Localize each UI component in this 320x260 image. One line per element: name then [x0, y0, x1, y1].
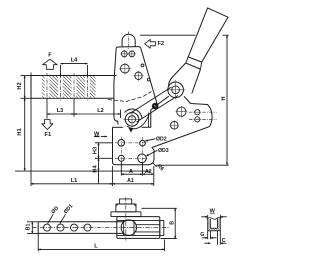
- base outline: [113, 96, 213, 165]
- bar hatch segments: [42, 76, 44, 98]
- bar centerline: [32, 227, 170, 229]
- F arrow: [43, 59, 58, 69]
- bracket left edge: [114, 49, 118, 124]
- mounting plate holes: [118, 140, 125, 147]
- F1 arrow: [42, 120, 53, 130]
- H2 dimension: [21, 75, 32, 77]
- svg-text:H2: H2: [17, 82, 23, 89]
- B: [142, 207, 177, 209]
- grip band lines: [186, 57, 202, 69]
- H1 dimension: [24, 98, 26, 170]
- OD2 leader: [145, 139, 155, 141]
- gusset holes: [171, 121, 179, 129]
- break squiggle: [207, 217, 222, 219]
- svg-text:B1: B1: [25, 223, 31, 230]
- F2 arrow: [145, 39, 156, 48]
- stack centerline: [125, 197, 127, 241]
- link middle pin: [152, 103, 159, 110]
- svg-text:A2: A2: [145, 169, 152, 175]
- handle: [188, 8, 228, 62]
- arm pivot: [125, 109, 142, 118]
- L: [37, 233, 39, 251]
- svg-text:ØD: ØD: [50, 205, 60, 215]
- L4 dimension: [60, 65, 62, 78]
- OD1 leader: [60, 214, 66, 223]
- svg-text:ØD2: ØD2: [156, 136, 167, 142]
- svg-text:H4: H4: [92, 165, 98, 173]
- plate hole centerlines: [115, 137, 149, 165]
- L1 dimension: [30, 73, 32, 187]
- handle pivot boss: [168, 82, 184, 98]
- channel profile hatched: [208, 218, 221, 231]
- svg-text:F: F: [48, 53, 52, 59]
- H3 / H4 dimension: [95, 142, 113, 144]
- C dim: [204, 242, 210, 244]
- OD3 leader: [146, 150, 157, 156]
- A1 dimension: [112, 183, 153, 185]
- svg-text:L4: L4: [71, 58, 78, 64]
- svg-text:L3: L3: [57, 108, 64, 114]
- junction blob: [129, 128, 134, 133]
- svg-text:F2: F2: [158, 41, 165, 47]
- right cap strip: [160, 220, 164, 235]
- W callout: [94, 135, 99, 137]
- OD leader: [48, 214, 54, 223]
- B1: [27, 221, 38, 223]
- svg-text:F1: F1: [45, 132, 52, 138]
- svg-text:ØD1: ØD1: [63, 203, 75, 215]
- body top view: [117, 217, 160, 239]
- svg-text:H3: H3: [92, 147, 98, 154]
- svg-text:A1: A1: [127, 178, 134, 184]
- svg-text:W: W: [94, 132, 100, 138]
- tab holes: [195, 110, 200, 115]
- link bar: [137, 96, 179, 123]
- bar holes: [44, 224, 92, 231]
- bar hole centerlines: [47, 73, 88, 101]
- bar top view: [38, 222, 124, 234]
- crosshairs for bracket holes: [119, 50, 144, 81]
- R6 leader: [153, 163, 157, 167]
- hidden arm dashed line: [108, 92, 152, 102]
- svg-text:W: W: [210, 209, 216, 215]
- svg-text:L2: L2: [97, 108, 104, 114]
- svg-text:A: A: [129, 169, 133, 175]
- L3 / L2 dimension: [46, 98, 48, 118]
- svg-text:R6: R6: [156, 163, 165, 172]
- upright bracket cap: [122, 34, 135, 47]
- surface line: [15, 170, 151, 172]
- W dim: [201, 216, 208, 218]
- svg-text:ØD3: ØD3: [158, 148, 169, 154]
- lever below grip: [169, 63, 186, 87]
- svg-text:H: H: [221, 96, 227, 100]
- arm bar outline: [31, 76, 117, 99]
- upright bracket body: [116, 47, 157, 105]
- G dim: [202, 237, 208, 239]
- svg-text:C: C: [222, 238, 226, 244]
- svg-text:G: G: [200, 232, 204, 238]
- svg-text:L1: L1: [71, 178, 78, 184]
- svg-text:H1: H1: [17, 128, 23, 135]
- H dimension: [140, 34, 196, 36]
- cap centerline: [128, 32, 130, 50]
- G ext lines: [207, 231, 209, 240]
- bottom view dims: [27, 208, 177, 251]
- C ext lines: [217, 231, 219, 245]
- A / A2 dimension: [120, 162, 122, 176]
- handle stack: [111, 212, 141, 217]
- svg-text:L: L: [94, 244, 98, 250]
- svg-text:B: B: [169, 221, 175, 225]
- bracket small holes: [121, 51, 151, 81]
